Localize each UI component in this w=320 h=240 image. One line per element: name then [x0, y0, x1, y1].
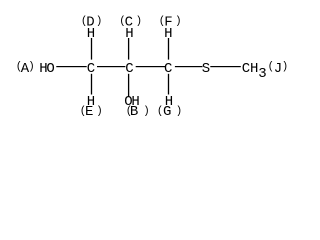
- svg-text:C: C: [242, 61, 250, 77]
- label (C) above H of C2: [119, 15, 142, 31]
- carbon C3: [164, 61, 172, 77]
- bond S-CH3: [210, 66, 241, 67]
- hydrogen H bottom on C3: [165, 94, 173, 110]
- svg-text:S: S: [202, 61, 210, 77]
- bond H-C2 vertical top: [128, 38, 129, 60]
- svg-text:): ): [282, 61, 288, 73]
- bond H-C3 vertical top: [168, 38, 169, 60]
- bond HO-C1: [56, 66, 86, 67]
- sulfur S: [202, 61, 210, 77]
- svg-text:): ): [28, 61, 34, 73]
- carbon C1: [87, 61, 95, 77]
- svg-text:E: E: [85, 104, 93, 120]
- bond H-C1 vertical top: [91, 38, 92, 60]
- svg-text:): ): [96, 15, 102, 27]
- svg-text:B: B: [130, 104, 138, 120]
- hydrogen H top on C3: [164, 26, 172, 42]
- svg-text:O: O: [46, 61, 54, 77]
- carbon C2: [125, 61, 133, 77]
- svg-text:3: 3: [258, 66, 266, 82]
- svg-text:G: G: [163, 104, 171, 120]
- bond C3-S: [175, 66, 203, 67]
- bond C1-C2: [97, 66, 125, 67]
- svg-text:C: C: [125, 61, 133, 77]
- svg-text:H: H: [250, 61, 258, 77]
- label (F) above H of C3: [159, 15, 182, 31]
- hydroxyl OH bottom on C2: [124, 94, 140, 110]
- hydrogen H bottom on C1: [87, 94, 95, 110]
- hydrogen H top on C2: [125, 26, 133, 42]
- label (B) below OH of C2: [126, 104, 150, 120]
- label (E) below H of C1: [80, 104, 103, 120]
- svg-text:): ): [176, 106, 182, 118]
- bond C2-C3: [136, 66, 166, 67]
- svg-text:): ): [136, 15, 142, 27]
- bond C2-OH vertical bottom: [128, 74, 129, 97]
- hydroxyl (A) HO group: [16, 61, 55, 77]
- methyl CH3 with label (J): [242, 61, 288, 82]
- svg-text:): ): [175, 15, 181, 27]
- svg-text:): ): [143, 106, 149, 118]
- bond C1-H vertical bottom: [91, 74, 92, 95]
- label (D) above H of C1: [81, 15, 102, 31]
- svg-text:H: H: [125, 26, 133, 42]
- bond C3-H vertical bottom: [168, 74, 169, 95]
- hydrogen H top on C1: [87, 26, 95, 42]
- label (G) below H of C3: [157, 104, 182, 120]
- svg-text:): ): [96, 106, 102, 118]
